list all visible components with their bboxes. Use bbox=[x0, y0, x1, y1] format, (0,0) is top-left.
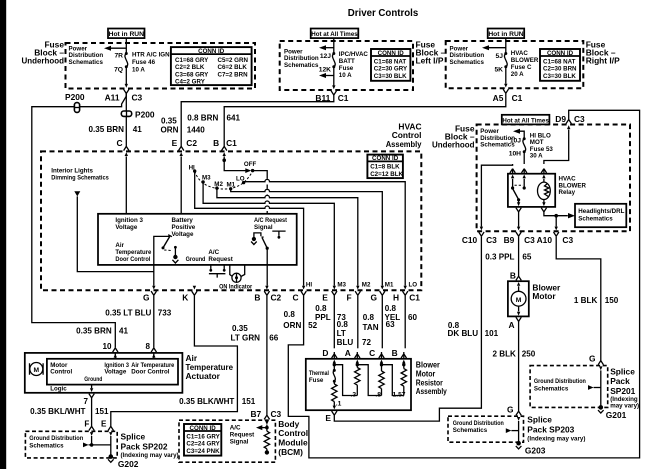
svg-text:Air: Air bbox=[115, 242, 124, 249]
svg-text:Splice: Splice bbox=[527, 415, 552, 425]
fuse 46 label bbox=[132, 52, 170, 74]
svg-text:733: 733 bbox=[158, 308, 172, 317]
inline connector P200 bbox=[121, 94, 155, 120]
svg-text:Ignition 3: Ignition 3 bbox=[115, 217, 143, 224]
svg-text:A5: A5 bbox=[493, 93, 504, 103]
svg-text:IPC/HVAC: IPC/HVAC bbox=[339, 51, 369, 58]
relay coil bbox=[538, 179, 551, 203]
label Fuse Block Left I/P bbox=[416, 40, 446, 66]
arrow to splice (SP201) bbox=[588, 385, 601, 390]
svg-text:101: 101 bbox=[485, 329, 499, 338]
svg-text:10J: 10J bbox=[510, 138, 521, 145]
label Fuse Block Right I/P bbox=[586, 40, 620, 66]
svg-text:Positive: Positive bbox=[172, 224, 196, 231]
svg-text:Hot in RUN: Hot in RUN bbox=[488, 31, 523, 38]
HVAC control assembly dashed box bbox=[41, 151, 421, 290]
wire pin 7 to splice F (0.35 BKL/WHT 151) bbox=[91, 398, 93, 428]
svg-text:E: E bbox=[101, 419, 107, 428]
Interior Lights Dimming Schematics bbox=[51, 167, 109, 181]
wire B to BCM (0.35 LT GRN 66) bbox=[266, 295, 268, 415]
wire A10 branch down bbox=[555, 216, 557, 227]
svg-text:Pack SP202: Pack SP202 bbox=[121, 441, 168, 451]
A/C request pushbutton below box bbox=[209, 265, 226, 278]
svg-text:A10: A10 bbox=[537, 235, 553, 245]
wire resistor to terminal bbox=[266, 449, 268, 451]
BCM dashed box bbox=[179, 420, 275, 462]
wire A10 to SP201 (1 BLK 150) bbox=[556, 236, 601, 361]
svg-text:C2: C2 bbox=[186, 138, 197, 148]
svg-text:10 A: 10 A bbox=[132, 66, 145, 73]
wire label 0.35 ORN 1440 bbox=[161, 116, 206, 134]
svg-text:DK BLU: DK BLU bbox=[448, 329, 479, 338]
svg-text:Underhood: Underhood bbox=[432, 140, 475, 150]
switch wiper travel arc bbox=[195, 171, 253, 189]
svg-text:G201: G201 bbox=[606, 410, 627, 420]
svg-text:C2=30 BRN: C2=30 BRN bbox=[543, 66, 577, 73]
svg-text:Voltage: Voltage bbox=[172, 231, 194, 238]
svg-text:A: A bbox=[508, 320, 514, 330]
wire A/C request to pin B bbox=[266, 248, 268, 286]
svg-text:Fuse: Fuse bbox=[339, 65, 354, 72]
arrow 5J to power distribution bbox=[482, 45, 506, 50]
svg-text:Driver Controls: Driver Controls bbox=[348, 8, 419, 19]
Hot at All Times tag box bbox=[311, 29, 359, 39]
svg-text:Fuse 46: Fuse 46 bbox=[132, 59, 156, 66]
svg-text:LO: LO bbox=[236, 176, 245, 183]
svg-text:Splice: Splice bbox=[121, 432, 146, 442]
svg-text:P200: P200 bbox=[135, 109, 155, 119]
junction dot bbox=[554, 214, 558, 218]
svg-text:C6=2 BLK: C6=2 BLK bbox=[218, 64, 248, 71]
svg-text:C4=2 GRY: C4=2 GRY bbox=[175, 79, 206, 86]
pin E crossing (M3) bbox=[332, 286, 337, 296]
svg-text:HVAC: HVAC bbox=[511, 50, 529, 57]
svg-text:Right I/P: Right I/P bbox=[586, 56, 620, 66]
svg-text:F: F bbox=[84, 419, 89, 428]
svg-text:Voltage: Voltage bbox=[115, 224, 137, 231]
svg-text:Hot at All Times: Hot at All Times bbox=[311, 31, 358, 38]
Body Control Module label bbox=[278, 419, 308, 457]
svg-text:150: 150 bbox=[605, 296, 619, 305]
svg-text:Relay: Relay bbox=[559, 189, 576, 196]
svg-text:5J: 5J bbox=[496, 53, 504, 60]
svg-text:(BCM): (BCM) bbox=[278, 447, 303, 457]
Air Temperature Door Control label bbox=[115, 242, 152, 263]
resistor chain link A to C bbox=[357, 365, 381, 396]
pin G crossing (M1) bbox=[380, 286, 385, 296]
pin G crossing bbox=[151, 286, 156, 296]
connector crossing B11/C1 bbox=[331, 85, 336, 95]
ground G203 bbox=[516, 441, 522, 449]
svg-text:Ground Distribution: Ground Distribution bbox=[453, 420, 504, 427]
crossing B7/C3 bbox=[264, 415, 269, 425]
svg-text:Fuse: Fuse bbox=[309, 377, 324, 384]
wire H to resistor B (0.8 YEL 60) bbox=[404, 295, 406, 348]
blower motor symbol bbox=[511, 286, 526, 311]
svg-text:C2: C2 bbox=[271, 293, 282, 303]
svg-text:E: E bbox=[172, 138, 178, 148]
crossing G (SP203) bbox=[516, 411, 521, 421]
svg-text:LT: LT bbox=[337, 329, 346, 338]
resistor .8 bbox=[375, 363, 384, 398]
svg-text:may vary): may vary) bbox=[610, 402, 639, 409]
wiper arrow at OFF bbox=[245, 168, 251, 173]
svg-text:7R: 7R bbox=[114, 52, 123, 59]
svg-text:Voltage: Voltage bbox=[104, 369, 126, 376]
ATA ground wire pin 7 bbox=[91, 385, 93, 389]
wire from Hot in RUN into fuse 46 bbox=[125, 38, 127, 53]
svg-text:0.35 BLK/WHT: 0.35 BLK/WHT bbox=[179, 397, 234, 406]
svg-text:Assembly: Assembly bbox=[416, 386, 447, 396]
svg-text:G203: G203 bbox=[525, 445, 546, 455]
svg-text:0.8: 0.8 bbox=[284, 310, 296, 319]
svg-text:K: K bbox=[182, 293, 188, 303]
svg-text:B: B bbox=[392, 348, 398, 358]
relay switch contacts bbox=[511, 179, 526, 203]
svg-text:C7=2 BRN: C7=2 BRN bbox=[218, 71, 249, 78]
A/C request switch blade bbox=[262, 238, 269, 250]
pin A crossing bbox=[355, 354, 360, 364]
wire E to G202 bbox=[110, 436, 112, 456]
wire C HI loop (0.8 ORN 52) to D9 bbox=[288, 110, 639, 458]
arrow 10J to power distribution bbox=[513, 129, 520, 134]
svg-text:C3: C3 bbox=[132, 92, 143, 102]
CONN ID table HVAC bbox=[367, 155, 403, 179]
svg-text:B: B bbox=[213, 138, 219, 148]
svg-text:C3: C3 bbox=[574, 114, 585, 124]
wire from tag into fuse bbox=[333, 38, 335, 53]
svg-text:Hot in RUN: Hot in RUN bbox=[109, 31, 144, 38]
wire relay to B9 bbox=[518, 212, 520, 227]
svg-text:Ground: Ground bbox=[186, 256, 206, 263]
page left black bar bbox=[0, 0, 6, 469]
wire to G201 bbox=[600, 370, 602, 406]
HVAC Control Assembly label bbox=[386, 122, 422, 149]
svg-text:Actuator: Actuator bbox=[186, 371, 221, 381]
wire HI contact to pin C bbox=[195, 171, 304, 286]
wire K ground (0.35 BLK/WHT 151) bbox=[111, 295, 238, 427]
svg-text:41: 41 bbox=[133, 125, 143, 134]
fuse block right I/P dashed box bbox=[446, 41, 584, 88]
crossing A10/C3 bbox=[554, 227, 559, 237]
svg-text:250: 250 bbox=[522, 350, 536, 359]
interior lights feed arrow bbox=[74, 191, 80, 196]
svg-text:M2: M2 bbox=[214, 181, 223, 188]
ATA outer box bbox=[25, 353, 183, 393]
svg-text:1440: 1440 bbox=[187, 125, 206, 134]
fuse label HVAC BLOWER Fuse C 20A bbox=[511, 50, 539, 78]
fuse block left I/P dashed box bbox=[280, 41, 413, 90]
A/C Request Signal label bbox=[254, 217, 287, 231]
Motor Control label bbox=[50, 362, 72, 376]
wire into resistor bbox=[266, 425, 268, 432]
Air Temperature Door Control label (ATA) bbox=[131, 362, 175, 376]
svg-text:C3=30 BLK: C3=30 BLK bbox=[543, 73, 576, 80]
Air Temperature Actuator label bbox=[186, 353, 234, 381]
label Fuse Block Underhood bbox=[22, 40, 65, 66]
svg-text:C3=30 BLK: C3=30 BLK bbox=[374, 73, 407, 80]
svg-text:1.57: 1.57 bbox=[393, 391, 406, 398]
svg-text:A/C: A/C bbox=[230, 425, 241, 432]
fuse 53 label bbox=[530, 133, 554, 160]
svg-text:Control: Control bbox=[50, 369, 72, 376]
svg-text:0.8 BRN: 0.8 BRN bbox=[187, 113, 218, 122]
A/C Request Signal label (BCM) bbox=[230, 425, 254, 446]
svg-text:Ground Distribution: Ground Distribution bbox=[534, 378, 586, 385]
svg-text:B: B bbox=[254, 293, 260, 303]
junction dot on wiper feed bbox=[222, 158, 226, 162]
svg-text:PPL: PPL bbox=[315, 313, 331, 322]
svg-text:Schematics: Schematics bbox=[29, 442, 64, 449]
svg-text:OFF: OFF bbox=[244, 161, 257, 168]
blower switch wiper feed wire bbox=[224, 156, 245, 170]
resistor chain link C to B bbox=[382, 365, 404, 396]
svg-text:LT GRN: LT GRN bbox=[231, 333, 261, 342]
svg-text:TAN: TAN bbox=[363, 323, 379, 332]
svg-text:7Q: 7Q bbox=[114, 66, 123, 73]
ATA inner box bbox=[47, 359, 178, 385]
switch contact HI bbox=[189, 164, 197, 173]
svg-text:LO: LO bbox=[409, 281, 418, 288]
arrow into headlights box bbox=[568, 213, 575, 218]
svg-text:BATT: BATT bbox=[339, 58, 355, 65]
svg-text:Pack: Pack bbox=[610, 376, 630, 386]
svg-text:41: 41 bbox=[119, 326, 129, 335]
switch contact LO bbox=[236, 176, 245, 185]
svg-text:C1=68 GRY: C1=68 GRY bbox=[175, 57, 209, 64]
wire M3 contact to pin E bbox=[203, 182, 334, 286]
svg-text:Signal: Signal bbox=[230, 439, 249, 446]
svg-text:Signal: Signal bbox=[254, 224, 273, 231]
fuse label IPC/HVAC BATT Fuse 10A bbox=[339, 51, 369, 79]
svg-text:Pack SP203: Pack SP203 bbox=[527, 424, 574, 434]
svg-text:Schematics: Schematics bbox=[534, 385, 569, 392]
arrow A/C request signal bbox=[256, 425, 267, 430]
A/C Request label bbox=[208, 249, 232, 263]
Hot at All Times tag box 2 bbox=[502, 115, 550, 125]
wire label 0.35 BRN 41 bbox=[88, 125, 142, 134]
connector crossing A11/C3 bbox=[124, 84, 129, 94]
Ground Distribution Schematics (SP203) bbox=[453, 420, 504, 434]
svg-text:C2=12 BLK: C2=12 BLK bbox=[370, 171, 403, 178]
svg-text:0.8: 0.8 bbox=[315, 304, 327, 313]
svg-text:M2: M2 bbox=[362, 281, 371, 288]
label Fuse Block Underhood 2 bbox=[432, 124, 475, 150]
pin C crossing bbox=[124, 146, 129, 156]
svg-text:C2=2 BLK: C2=2 BLK bbox=[175, 64, 205, 71]
wire label 0.35 BRN 41 (lower) bbox=[76, 326, 128, 335]
svg-text:0.35: 0.35 bbox=[161, 116, 177, 125]
svg-text:Schematics: Schematics bbox=[450, 59, 485, 66]
svg-text:Battery: Battery bbox=[172, 217, 194, 224]
svg-text:A: A bbox=[345, 348, 351, 358]
svg-text:ON Indicator: ON Indicator bbox=[219, 284, 253, 291]
wire LO contact to pin H bbox=[244, 179, 406, 285]
wire M2 contact to pin F bbox=[217, 188, 358, 286]
CONN ID table 1 bbox=[171, 47, 252, 86]
svg-text:C1: C1 bbox=[338, 93, 349, 103]
svg-text:B9: B9 bbox=[504, 235, 515, 245]
svg-text:C: C bbox=[369, 348, 375, 358]
svg-text:C1: C1 bbox=[409, 293, 420, 303]
svg-text:Door Control: Door Control bbox=[115, 256, 150, 263]
resistor chain link D to A bbox=[334, 365, 357, 396]
svg-text:641: 641 bbox=[227, 113, 241, 122]
pin F crossing (M2) bbox=[355, 286, 360, 296]
svg-text:(Indexing may vary): (Indexing may vary) bbox=[121, 452, 179, 459]
svg-text:CONN ID: CONN ID bbox=[378, 50, 405, 57]
svg-text:C1: C1 bbox=[512, 93, 523, 103]
svg-text:Schematics: Schematics bbox=[69, 59, 104, 66]
wire thermal fuse to pin E bbox=[333, 406, 335, 407]
wire fuse down to A5 bbox=[505, 67, 507, 84]
fuse 53 symbol bbox=[523, 137, 526, 153]
wire A5 to HVAC pin B (0.8 BRN 641) bbox=[224, 93, 506, 146]
crossing E bbox=[108, 426, 113, 436]
wire OFF to A/C request switch bbox=[253, 171, 268, 214]
svg-text:M3: M3 bbox=[337, 281, 346, 288]
svg-text:7: 7 bbox=[83, 397, 88, 406]
thermal fuse symbol bbox=[333, 363, 336, 383]
wire G to resistor C (0.8 TAN 63) bbox=[381, 295, 383, 348]
svg-text:CONN ID: CONN ID bbox=[547, 50, 574, 57]
svg-text:Request: Request bbox=[230, 432, 254, 439]
arrow to power distribution bbox=[104, 46, 126, 51]
relay pin crossings (bottom) bbox=[516, 202, 521, 212]
arrow to splice bbox=[83, 443, 89, 448]
wire label 0.8 BRN 641 bbox=[187, 113, 240, 122]
svg-text:CONN ID: CONN ID bbox=[372, 155, 399, 162]
svg-text:Ground Distribution: Ground Distribution bbox=[29, 435, 83, 442]
wire to HVAC pin C bbox=[125, 116, 127, 146]
svg-text:C1=68 NAT: C1=68 NAT bbox=[374, 58, 407, 65]
wire from tag into fuse bbox=[505, 38, 507, 53]
svg-text:0.8: 0.8 bbox=[385, 304, 397, 313]
Power Distribution Schematics text 2 bbox=[284, 49, 319, 69]
svg-text:G: G bbox=[589, 353, 596, 363]
svg-text:G: G bbox=[370, 293, 377, 303]
connector crossing A5/C1 bbox=[503, 84, 508, 94]
battery switch blade bbox=[162, 235, 172, 250]
svg-text:G: G bbox=[507, 405, 514, 415]
splice bus wire bbox=[89, 444, 111, 446]
ground G201 bbox=[598, 405, 604, 413]
svg-text:0.35 BRN: 0.35 BRN bbox=[76, 326, 112, 335]
D9 crossing into box bbox=[566, 120, 571, 130]
svg-text:1 BLK: 1 BLK bbox=[574, 296, 598, 305]
pin C crossing (HI) bbox=[301, 286, 306, 296]
svg-text:C1=68 NAT: C1=68 NAT bbox=[543, 58, 576, 65]
svg-text:YEL: YEL bbox=[385, 313, 401, 322]
wire door control to pin G bbox=[153, 265, 155, 286]
A/C request switch dashed link bbox=[262, 236, 266, 238]
svg-text:66: 66 bbox=[269, 333, 279, 342]
ground G202 bbox=[108, 454, 114, 462]
wire F to resistor A (0.8 LT BLU 72) bbox=[357, 295, 359, 348]
battery switch contact and ground bbox=[172, 246, 178, 263]
svg-text:Underhood: Underhood bbox=[22, 56, 65, 66]
svg-text:72: 72 bbox=[362, 338, 372, 347]
fuse block underhood 2 dashed box bbox=[477, 125, 630, 232]
Thermal Fuse label bbox=[309, 370, 329, 384]
svg-text:B7: B7 bbox=[250, 409, 261, 419]
wire C into control head bbox=[125, 156, 127, 213]
svg-text:0.35 LT BLU: 0.35 LT BLU bbox=[105, 308, 151, 317]
battery switch dashed link bbox=[164, 249, 172, 252]
relay pin crossings (top) bbox=[510, 169, 515, 179]
svg-text:D: D bbox=[322, 348, 328, 358]
svg-text:Fuse C: Fuse C bbox=[511, 64, 532, 71]
svg-text:F: F bbox=[346, 293, 351, 303]
svg-text:C3: C3 bbox=[524, 235, 535, 245]
svg-text:CONN ID: CONN ID bbox=[198, 48, 225, 55]
svg-text:E: E bbox=[325, 413, 331, 423]
Ignition 3 Voltage label (ATA) bbox=[104, 362, 129, 376]
pin E/C2 crossing bbox=[179, 146, 184, 156]
svg-text:Request: Request bbox=[208, 256, 232, 263]
svg-text:ORN: ORN bbox=[283, 321, 301, 330]
wire B9 to blower motor (0.3 PPL 65) bbox=[518, 236, 520, 276]
fuse block underhood dashed box bbox=[66, 43, 256, 89]
wire M1 contact to pin G bbox=[231, 189, 383, 286]
wire D9 to relay coil bbox=[544, 130, 569, 165]
svg-text:Schematics: Schematics bbox=[453, 427, 488, 434]
crossing G (SP201) bbox=[598, 361, 603, 371]
CONN ID table BCM bbox=[184, 424, 221, 456]
switch contact M1 bbox=[227, 181, 236, 190]
svg-text:.1: .1 bbox=[336, 400, 342, 407]
arrow 12J to power distribution bbox=[319, 45, 334, 50]
svg-text:12J: 12J bbox=[320, 53, 331, 60]
svg-text:C2=24 GRY: C2=24 GRY bbox=[186, 441, 220, 448]
crossing F bbox=[89, 426, 94, 436]
headlights/DRL schematics box bbox=[575, 204, 626, 227]
thermal fuse resistor .1 bbox=[332, 381, 342, 407]
svg-text:(Indexing may vary): (Indexing may vary) bbox=[527, 435, 585, 442]
fuse 46 symbol bbox=[125, 52, 128, 68]
pin B crossing bbox=[401, 354, 406, 364]
wire P200 branch to ATA pin 10 bbox=[32, 107, 116, 348]
svg-text:G: G bbox=[143, 293, 150, 303]
svg-text:C3=68 GRY: C3=68 GRY bbox=[175, 71, 209, 78]
BMRA box bbox=[306, 359, 411, 410]
junction dot bbox=[265, 426, 269, 430]
CONN ID table 2 bbox=[371, 49, 410, 81]
svg-text:0.35 BRN: 0.35 BRN bbox=[88, 125, 124, 134]
pin A crossing bbox=[516, 312, 521, 322]
svg-text:.8: .8 bbox=[375, 391, 381, 398]
svg-text:C5=2 GRN: C5=2 GRN bbox=[218, 57, 249, 64]
pin C crossing bbox=[379, 354, 384, 364]
svg-text:151: 151 bbox=[242, 397, 256, 406]
svg-text:C1: C1 bbox=[226, 138, 237, 148]
wire E into control head bbox=[180, 156, 182, 213]
Battery Positive Voltage label bbox=[172, 217, 196, 238]
ON indicator lamp bbox=[230, 265, 245, 283]
junction dot F bbox=[90, 443, 94, 447]
wire interior lights to door control bbox=[77, 196, 154, 271]
svg-text:Logic: Logic bbox=[50, 385, 67, 392]
battery switch wire to G out bbox=[154, 236, 170, 265]
svg-text:C1=8 BLK: C1=8 BLK bbox=[370, 164, 400, 171]
pin 10 crossing bbox=[113, 348, 118, 358]
wires pins into BMRA box bbox=[334, 352, 404, 359]
svg-text:60: 60 bbox=[408, 313, 418, 322]
fuse IPC/HVAC symbol bbox=[332, 52, 335, 68]
svg-text:SP201: SP201 bbox=[610, 386, 635, 396]
BCM terminal dot bbox=[265, 450, 269, 454]
Power Distribution Schematics text 4 bbox=[480, 128, 515, 148]
